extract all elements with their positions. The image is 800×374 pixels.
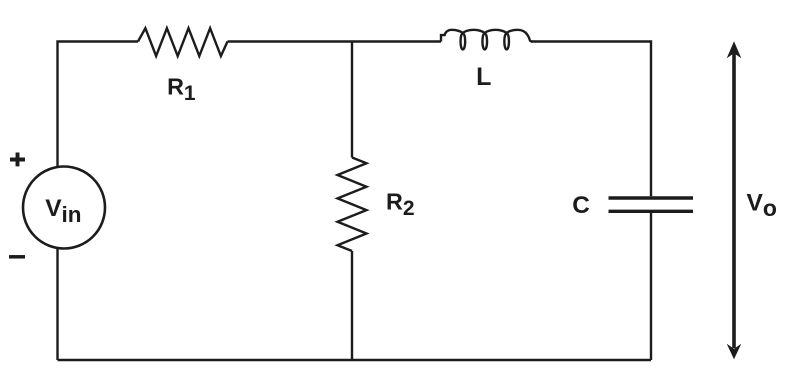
svg-text:R2: R2: [386, 188, 415, 220]
resistor R2: [338, 158, 367, 252]
svg-text:Vo: Vo: [747, 190, 777, 222]
wire inductor to top-right corner down to capacitor: [531, 42, 651, 197]
wire left vertical top (source to top-left corner to R1): [58, 42, 139, 167]
svg-text:C: C: [572, 192, 590, 219]
wire node A to inductor: [352, 40, 441, 42]
wire R2 to bottom wire: [351, 251, 353, 360]
svg-text:Vin: Vin: [45, 195, 81, 227]
wire capacitor to bottom-right corner: [650, 213, 652, 360]
voltage source Vin circle: [23, 167, 105, 249]
Vo arrow head top: [727, 41, 742, 58]
Vo arrow head bottom: [727, 344, 742, 360]
inductor L: [441, 30, 532, 50]
wire bottom: [58, 359, 652, 361]
wire R1 to node A: [228, 40, 353, 42]
wire source bottom to bottom wire: [56, 249, 58, 360]
plus sign: [10, 153, 25, 167]
capacitor C plates: [609, 198, 694, 211]
svg-text:L: L: [476, 63, 491, 91]
wire node A to R2: [351, 42, 353, 158]
minus sign: [9, 255, 25, 259]
Vo arrow shaft: [732, 53, 736, 348]
resistor R1: [138, 28, 228, 56]
svg-text:R1: R1: [167, 73, 196, 105]
